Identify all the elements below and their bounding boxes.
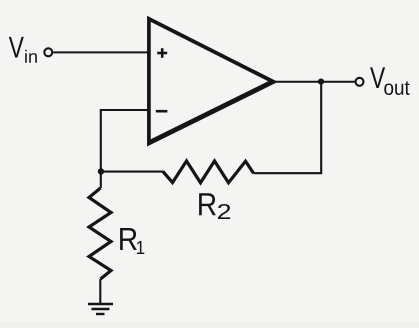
op-amp U1 (147, 16, 278, 147)
label Vout (370, 67, 410, 95)
junction output node dot (318, 79, 324, 85)
label Vin (9, 37, 37, 63)
resistor R1 (89, 171, 111, 279)
ground (88, 304, 113, 314)
wire - input to node A (101, 110, 150, 172)
wire node A to R2 (101, 171, 164, 173)
resistor R2 (163, 161, 254, 183)
terminal Vout (356, 78, 364, 86)
node A junction dot (98, 168, 104, 174)
label R2 (199, 193, 230, 219)
wire R2 to output junction (254, 82, 322, 173)
op-amp - input pin symbol (156, 110, 168, 113)
wire R1 to ground (99, 279, 101, 304)
wire Vin to + input (53, 51, 150, 53)
terminal Vin (44, 48, 52, 56)
op-amp + input pin symbol (157, 48, 167, 58)
label R1 (120, 228, 144, 254)
wire op-amp output (272, 81, 355, 83)
